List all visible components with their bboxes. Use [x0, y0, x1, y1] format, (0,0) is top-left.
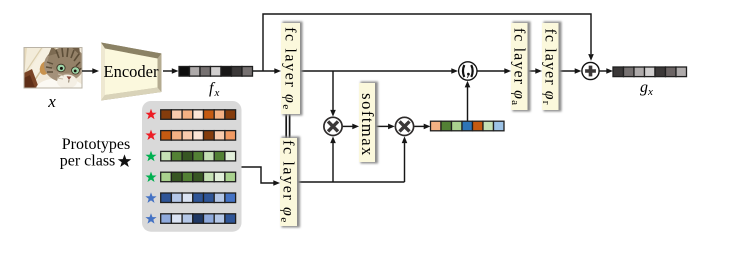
svg-text:x: x: [47, 92, 56, 111]
svg-text:softmax: softmax: [358, 93, 377, 157]
svg-text:x: x: [647, 86, 653, 98]
svg-text:x: x: [214, 87, 220, 99]
svg-text:Encoder: Encoder: [104, 62, 159, 81]
svg-text:fc layer φa: fc layer φa: [509, 28, 528, 106]
svg-text:Prototypes: Prototypes: [62, 136, 130, 153]
svg-text:g: g: [640, 79, 648, 96]
svg-text:per class: per class: [60, 153, 116, 170]
svg-text:fc layer φr: fc layer φr: [540, 28, 559, 105]
svg-text:fc layer φe: fc layer φe: [278, 140, 297, 224]
svg-text:fc layer φe: fc layer φe: [280, 27, 299, 111]
